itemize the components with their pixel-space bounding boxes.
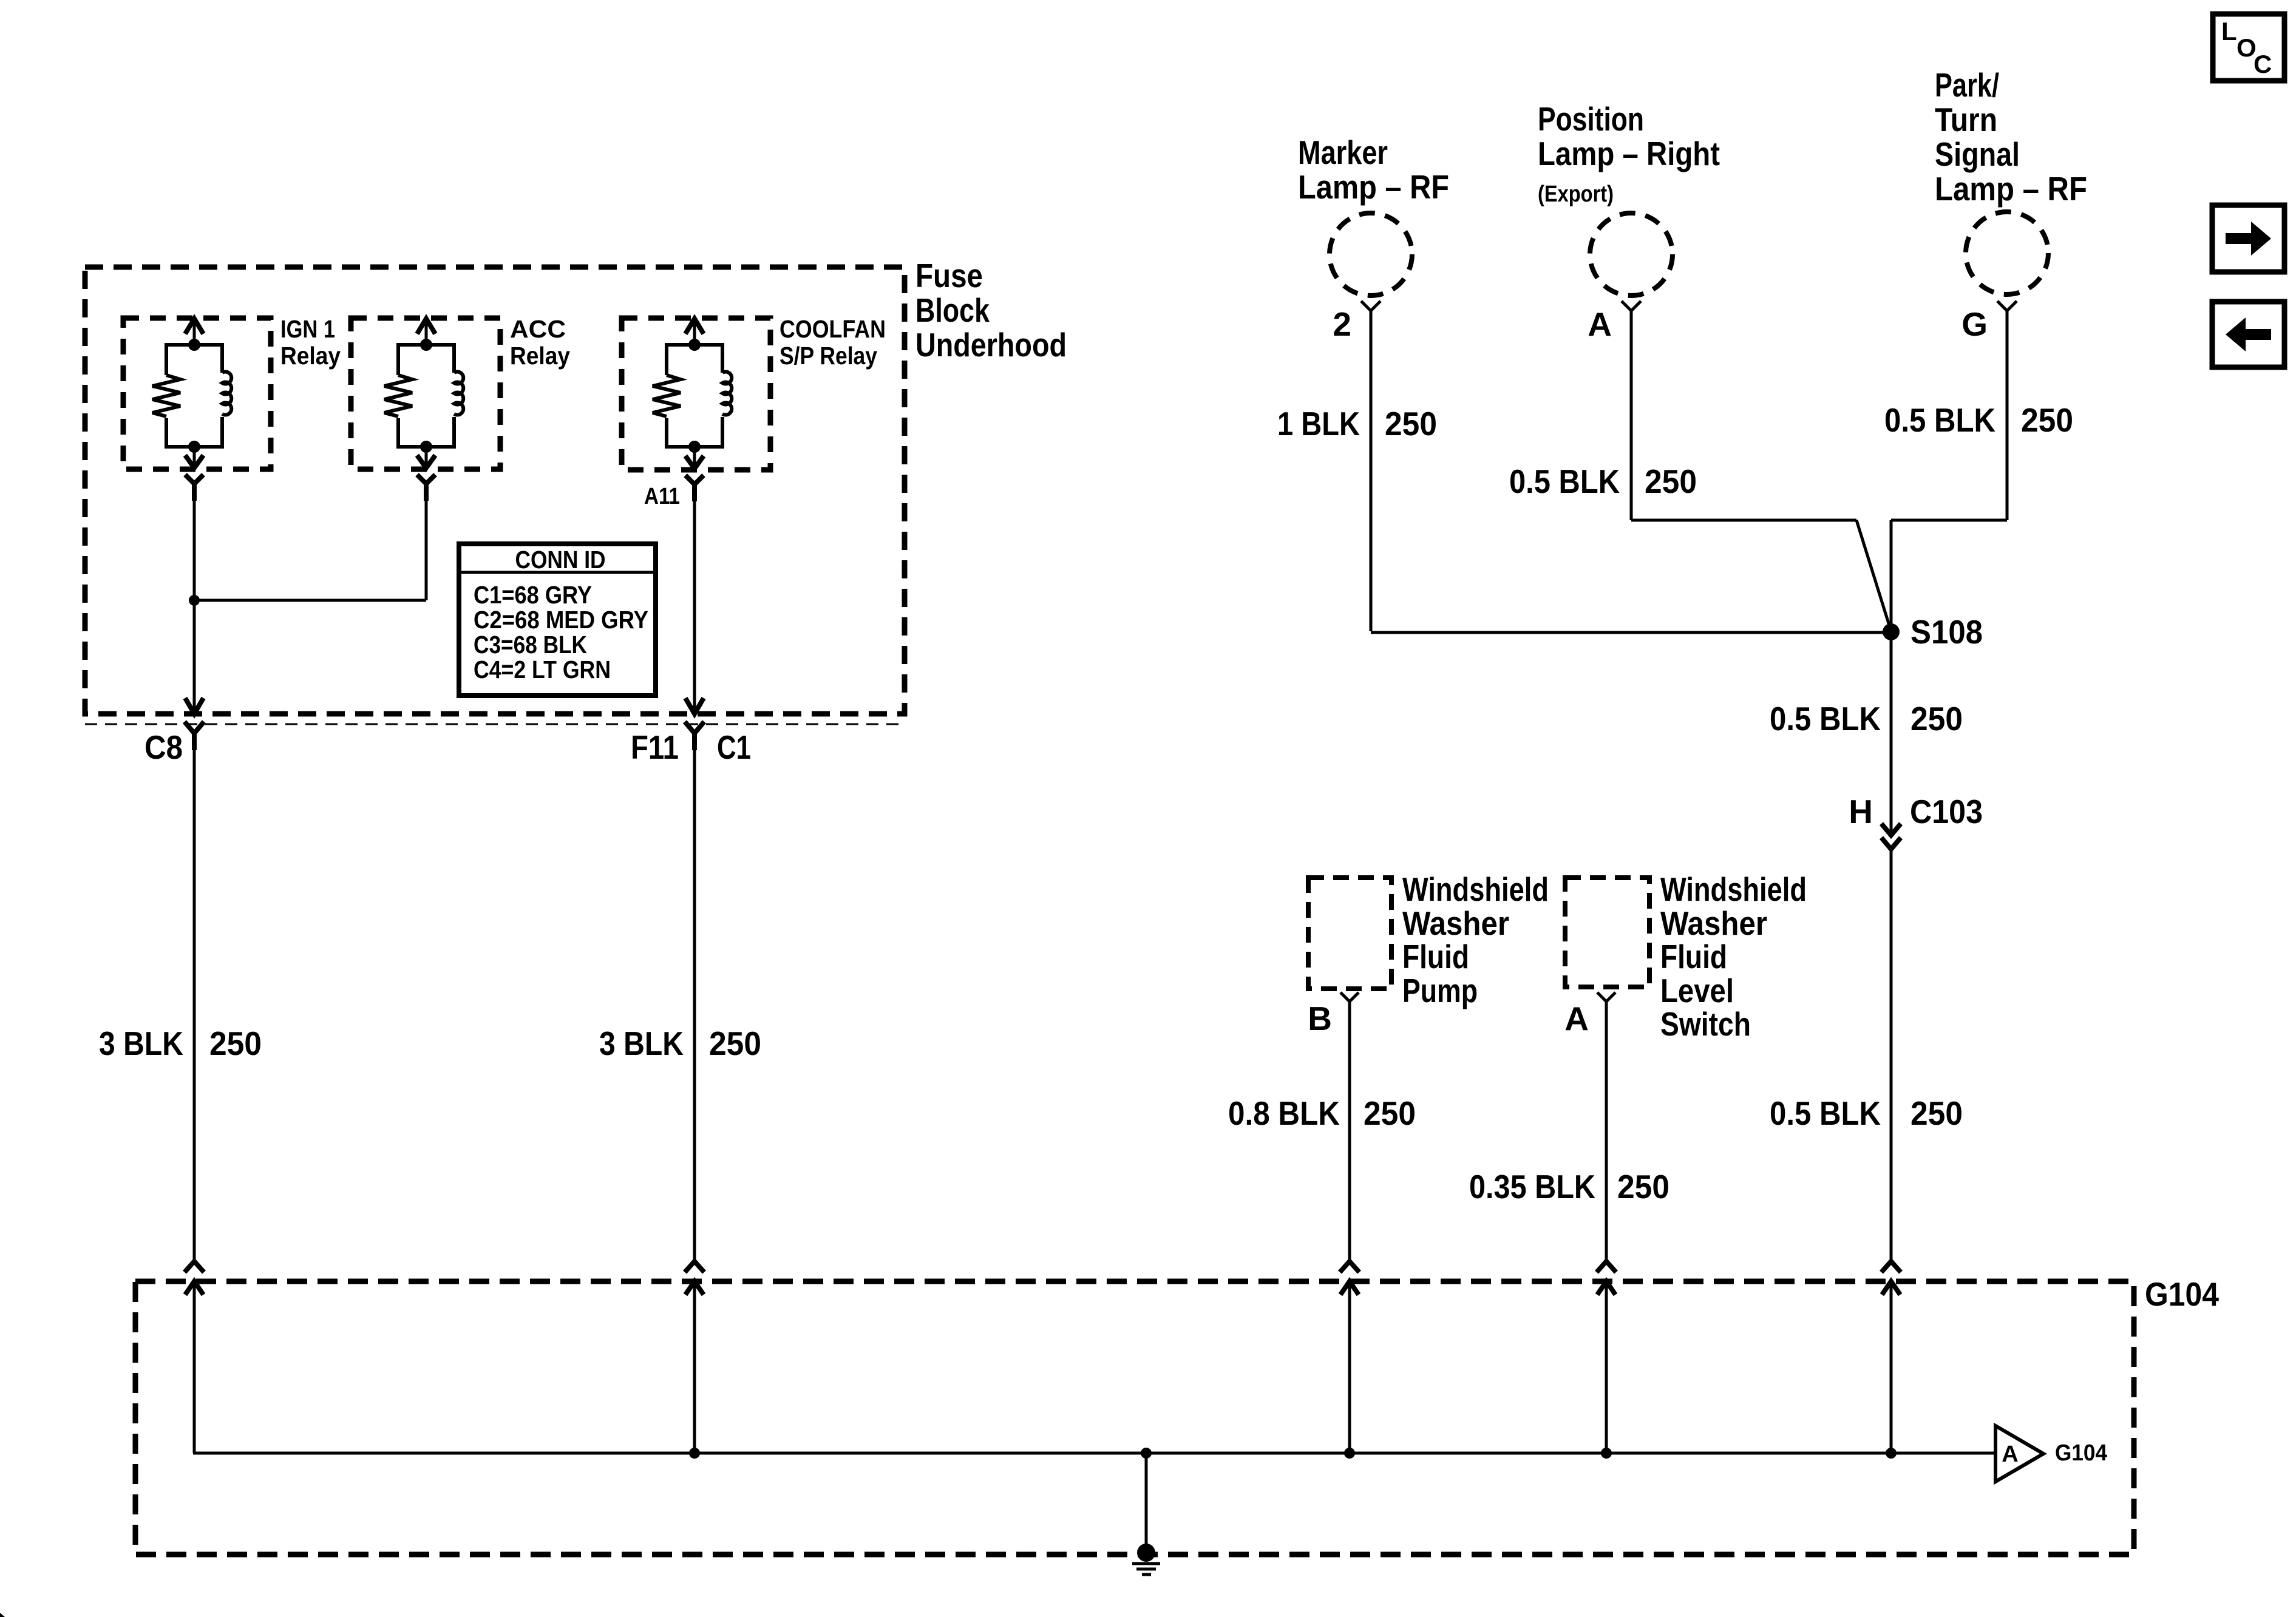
svg-text:C8: C8: [144, 728, 183, 766]
wire: C1 to G104, 3 BLK 250: [599, 733, 761, 1261]
svg-text:3 BLK: 3 BLK: [599, 1025, 684, 1062]
svg-text:250: 250: [1364, 1094, 1416, 1132]
svg-text:Windshield: Windshield: [1660, 870, 1807, 908]
ground stub wire: [1145, 1453, 1148, 1553]
connector C8 exit of fuse block: [185, 698, 204, 750]
svg-text:Lamp – RF: Lamp – RF: [1298, 168, 1449, 206]
svg-text:C3=68 BLK: C3=68 BLK: [474, 631, 587, 659]
svg-text:G: G: [1961, 305, 1988, 343]
svg-text:S108: S108: [1911, 613, 1983, 651]
svg-text:C1=68 GRY: C1=68 GRY: [474, 581, 592, 609]
wire: ACC relay down and over to IGN1 wire: [194, 484, 426, 600]
wire: position lamp to S108, 0.5 BLK 250: [1509, 311, 1891, 631]
in-line connector C103 pin H: [1849, 793, 1983, 849]
svg-text:Park/: Park/: [1935, 66, 1999, 104]
svg-text:Fuse: Fuse: [915, 257, 983, 294]
svg-text:0.5 BLK: 0.5 BLK: [1770, 1094, 1881, 1132]
svg-text:250: 250: [1911, 1094, 1963, 1132]
forward arrow box: [2212, 205, 2284, 272]
svg-text:C1: C1: [717, 728, 751, 766]
svg-text:Lamp – RF: Lamp – RF: [1935, 170, 2087, 208]
svg-text:250: 250: [709, 1025, 761, 1062]
svg-text:Marker: Marker: [1298, 134, 1388, 171]
svg-text:1 BLK: 1 BLK: [1277, 405, 1360, 442]
svg-text:Underhood: Underhood: [915, 326, 1067, 364]
wire: park/turn lamp to S108, 0.5 BLK 250: [1884, 311, 2073, 631]
svg-text:G104: G104: [2145, 1275, 2219, 1313]
svg-text:Switch: Switch: [1660, 1005, 1751, 1043]
ground symbol G104: [1132, 1544, 1160, 1575]
svg-text:Relay: Relay: [280, 342, 341, 370]
wire: level switch to G104, 0.35 BLK 250: [1469, 1002, 1669, 1261]
svg-text:S/P Relay: S/P Relay: [779, 342, 877, 370]
svg-text:A11: A11: [644, 484, 680, 509]
svg-text:Signal: Signal: [1935, 135, 2020, 173]
svg-text:Windshield: Windshield: [1402, 870, 1549, 908]
wire: IGN1 relay down to C8 exit: [193, 484, 196, 713]
svg-text:Turn: Turn: [1935, 101, 1997, 138]
svg-text:250: 250: [1911, 700, 1963, 737]
wire: pump to G104, 0.8 BLK 250: [1228, 1002, 1416, 1261]
pin A of position lamp: [1588, 301, 1641, 343]
svg-text:3 BLK: 3 BLK: [99, 1025, 183, 1062]
svg-text:CONN ID: CONN ID: [515, 546, 606, 574]
pin G of park/turn lamp: [1961, 301, 2017, 343]
svg-text:ACC: ACC: [510, 315, 566, 343]
svg-text:COOLFAN: COOLFAN: [779, 315, 886, 343]
relay ACC: [351, 315, 570, 501]
pin A of washer level switch: [1564, 992, 1615, 1037]
svg-text:0.5 BLK: 0.5 BLK: [1770, 700, 1881, 737]
ground bus wire inside G104: [193, 1281, 1997, 1453]
svg-text:Position: Position: [1538, 100, 1644, 138]
back arrow box: [2212, 302, 2284, 367]
svg-text:B: B: [1308, 1000, 1332, 1037]
corner tick bottom-left: [0, 1613, 5, 1617]
svg-text:A: A: [1588, 305, 1612, 343]
splice S108: [1883, 613, 1983, 651]
svg-text:Pump: Pump: [1402, 972, 1478, 1009]
lamp: Park/Turn Signal Lamp - RF: [1935, 66, 2087, 294]
connector entry into G104 (pump wire): [1340, 1261, 1359, 1295]
svg-text:Washer: Washer: [1402, 904, 1509, 942]
svg-text:Level: Level: [1660, 972, 1734, 1009]
junction dot ground stub: [1141, 1448, 1152, 1459]
connector entry into G104 (switch wire): [1597, 1261, 1616, 1295]
junction dot relays: [189, 595, 200, 606]
svg-text:250: 250: [209, 1025, 262, 1062]
svg-text:A: A: [1564, 1000, 1589, 1037]
pin B of washer pump: [1308, 992, 1359, 1037]
svg-text:Relay: Relay: [510, 342, 570, 370]
svg-text:F11: F11: [631, 728, 679, 766]
fuse block connector face (thin dashed line): [85, 724, 905, 725]
relay COOLFAN S/P: [622, 315, 886, 501]
wire: C103 to G104, 0.5 BLK 250: [1770, 849, 1963, 1261]
svg-text:(Export): (Export): [1538, 181, 1614, 207]
relay IGN 1 (resistor + coil in parallel): [123, 315, 341, 501]
svg-text:IGN 1: IGN 1: [280, 315, 335, 343]
junction dot C103/bus: [1886, 1448, 1897, 1459]
ground reference triangle A G104: [1995, 1426, 2107, 1482]
junction dot pump/bus: [1344, 1448, 1355, 1459]
svg-text:H: H: [1849, 793, 1873, 830]
svg-text:250: 250: [1617, 1168, 1669, 1205]
svg-text:Block: Block: [915, 291, 990, 329]
svg-text:0.5 BLK: 0.5 BLK: [1884, 401, 1995, 439]
svg-text:C2=68 MED GRY: C2=68 MED GRY: [474, 606, 648, 634]
svg-text:Fluid: Fluid: [1660, 938, 1727, 975]
svg-text:A: A: [2002, 1442, 2018, 1467]
connector F11 / C1 exit of fuse block: [685, 698, 704, 750]
fuse block underhood dashed box: [85, 257, 1067, 714]
svg-text:C103: C103: [1910, 793, 1983, 830]
CONN ID table: [459, 544, 656, 696]
junction dot C1/bus: [689, 1448, 700, 1459]
svg-text:Lamp – Right: Lamp – Right: [1538, 135, 1720, 172]
svg-text:Washer: Washer: [1660, 904, 1767, 942]
ground block G104 dashed box: [135, 1275, 2219, 1554]
windshield washer fluid pump: [1308, 870, 1549, 1009]
svg-text:0.8 BLK: 0.8 BLK: [1228, 1094, 1340, 1132]
wire: COOLFAN relay down to F11 exit: [693, 484, 696, 713]
junction dot switch/bus: [1601, 1448, 1612, 1459]
svg-text:L: L: [2221, 17, 2237, 46]
wire: S108 to C103, 0.5 BLK 250: [1770, 632, 1963, 835]
svg-text:250: 250: [2021, 401, 2073, 439]
wire: C8 to G104, 3 BLK 250: [99, 733, 262, 1261]
svg-text:C4=2 LT GRN: C4=2 LT GRN: [474, 656, 611, 683]
connector entry into G104 (C8 wire): [185, 1261, 204, 1295]
lamp: Marker Lamp - RF: [1298, 134, 1449, 296]
svg-text:250: 250: [1385, 405, 1437, 442]
lamp: Position Lamp - Right (Export): [1538, 100, 1720, 296]
svg-text:0.35 BLK: 0.35 BLK: [1469, 1168, 1595, 1205]
svg-text:Fluid: Fluid: [1402, 938, 1469, 975]
svg-text:250: 250: [1645, 463, 1697, 500]
LOC legend box: [2213, 14, 2284, 81]
svg-text:0.5 BLK: 0.5 BLK: [1509, 463, 1620, 500]
svg-text:G104: G104: [2055, 1440, 2107, 1466]
wire: marker lamp to S108, 1 BLK 250: [1277, 311, 1891, 632]
svg-text:C: C: [2254, 50, 2272, 78]
connector entry into G104 (C103 wire): [1881, 1261, 1901, 1295]
connector entry into G104 (C1 wire): [685, 1261, 704, 1295]
windshield washer fluid level switch: [1565, 870, 1807, 1043]
pin 2 of marker lamp: [1333, 301, 1381, 343]
svg-text:2: 2: [1333, 305, 1351, 343]
